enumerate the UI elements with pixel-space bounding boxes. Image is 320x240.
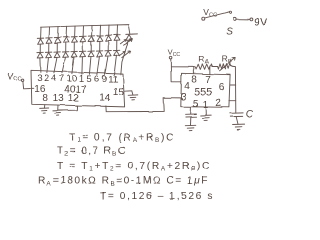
svg-text:5: 5: [86, 74, 91, 85]
IC U2 555 body: [181, 73, 230, 107]
LED D8b (row 2, col 8): [96, 51, 102, 57]
capacitor C (timing): [230, 113, 243, 117]
wire: column 4 to 4017 pin 7: [62, 58, 66, 74]
svg-text:8: 8: [191, 75, 197, 86]
resistor RA: [195, 64, 212, 70]
svg-text:15: 15: [113, 87, 125, 98]
svg-text:S: S: [226, 26, 233, 37]
wire: column 3 to 4017 pin 4: [54, 58, 57, 73]
LED D6b (row 2, col 6): [79, 51, 85, 57]
svg-text:T = T1+T2= 0,7(RA+2RB)C: T = T1+T2= 0,7(RA+2RB)C: [57, 161, 211, 173]
wire: column 11 to 4017 pin 11 corner: [121, 40, 129, 75]
svg-text:10: 10: [66, 74, 77, 85]
wire: column 5 link: [73, 43, 75, 52]
wire: column 1 to 4017 pin 3: [39, 58, 42, 72]
svg-text:A: A: [205, 59, 209, 65]
LED D10b (row 2, col 10): [113, 50, 119, 56]
svg-text:B: B: [228, 59, 232, 65]
wire: column 10 link: [116, 41, 118, 51]
wire: RA to RB junction (555 pin 7): [212, 66, 218, 68]
LED D4b (row 2, col 4): [62, 52, 68, 58]
wire: C to ground: [236, 117, 238, 125]
wire: column 2 bus drop: [48, 27, 50, 38]
wire: RB to right vertical rail: [231, 66, 236, 113]
capacitor (pin 5 bypass): [186, 114, 197, 117]
LED D3a (row 1, col 3): [54, 37, 60, 43]
LED D9b (row 2, col 9): [105, 51, 111, 57]
wire: diode anode bus: [41, 25, 130, 34]
wire: column 6 link: [82, 42, 84, 51]
LED D1a (row 1, col 1): [37, 38, 43, 44]
svg-text:11: 11: [108, 74, 118, 85]
svg-text:9: 9: [102, 74, 107, 85]
wire: 555 pin 2 to rail: [229, 100, 236, 102]
svg-text:CC: CC: [13, 76, 21, 82]
wire: column 6 to 4017 pin 1: [81, 57, 84, 74]
formula line 2: T2 = 0,7 RBC: [57, 146, 127, 158]
wire: 555 pin 7 to RA/RB junction: [209, 67, 211, 75]
formula line 1: T1 = 0,7 (RA+RB)C: [69, 132, 175, 144]
LED D10a (row 1, col 10): [114, 35, 120, 41]
switch S lever: [205, 12, 230, 18]
wire: column 8 bus drop: [99, 25, 101, 36]
resistor RB label: [222, 53, 232, 65]
LED D3b (row 2, col 3): [54, 52, 60, 58]
wire: pin 8 to ground: [43, 105, 45, 109]
svg-text:T= 0,126 – 1,526 s: T= 0,126 – 1,526 s: [100, 191, 214, 202]
formula line 5: T = 0,126 - 1,526 s: [100, 191, 214, 202]
Vcc terminal circle (555): [169, 56, 172, 59]
svg-text:14: 14: [99, 93, 111, 104]
wire: 555 pin 5 to bypass cap: [190, 107, 192, 114]
svg-text:3: 3: [37, 73, 42, 84]
wire: switch to 9V terminal: [236, 18, 250, 20]
4017 pin 16 tick: [31, 87, 34, 89]
LED D2a (row 1, col 2): [46, 38, 52, 44]
wire: column 6 bus drop: [82, 26, 84, 37]
svg-text:CC: CC: [173, 52, 181, 58]
LED D2b (row 2, col 2): [45, 52, 51, 58]
4017 top pin numbers 3 2 4 7 10 1 5 6 9 11: [37, 73, 118, 86]
svg-text:9V: 9V: [254, 16, 268, 28]
wire: column 5 bus drop: [74, 26, 76, 37]
svg-text:T2= 0,7 RBC: T2= 0,7 RBC: [57, 146, 127, 158]
svg-text:R: R: [222, 53, 228, 63]
wire: column 8 to 4017 pin 6: [97, 57, 100, 75]
svg-text:13: 13: [53, 93, 65, 104]
wire: 555 pin 1 to ground: [205, 108, 207, 116]
wire: bypass cap to ground: [190, 117, 192, 125]
Vcc label (4017 supply): [8, 71, 22, 82]
wire: 555 pin 3 output to 4017 pin 14 clock: [106, 98, 181, 112]
resistor RB (variable): [218, 64, 231, 70]
wire: Vcc rail to RA: [171, 66, 195, 68]
LED D5a (row 1, col 5): [71, 37, 77, 43]
wire: column 2 link: [48, 44, 50, 53]
wire: pin 12 to pin 13 ground rail: [58, 106, 77, 111]
LED D4a (row 1, col 4): [63, 37, 69, 43]
svg-text:3: 3: [181, 92, 187, 103]
wire: column 2 to 4017 pin 2: [47, 58, 49, 73]
svg-text:5: 5: [193, 99, 199, 110]
wire: column 8 link: [99, 41, 101, 51]
wire: column 4 bus drop: [65, 26, 67, 37]
formula line 3: T = T1+T2 = 0,7(RA+2RB)C: [57, 161, 211, 173]
svg-text:4: 4: [51, 73, 56, 84]
ground (555 pin 5): [185, 125, 196, 130]
svg-text:R: R: [198, 54, 204, 64]
wire: column 9 bus drop: [108, 25, 110, 35]
svg-text:4: 4: [184, 81, 190, 92]
Vcc label (switch): [203, 7, 217, 18]
svg-text:12: 12: [68, 93, 80, 104]
svg-text:6: 6: [94, 74, 99, 85]
resistor RB arrow (variable): [220, 58, 236, 71]
svg-text:7: 7: [59, 73, 64, 84]
wire: pin 13 to ground: [57, 105, 59, 111]
resistor RA label: [198, 54, 208, 66]
LED light arrows, row 2: [119, 51, 131, 58]
svg-text:2: 2: [216, 98, 222, 109]
LED D7b (row 2, col 7): [88, 51, 94, 57]
ground (capacitor C): [233, 124, 245, 129]
wire: 555 pin 6 to rail: [230, 84, 236, 86]
wire: column 7 to 4017 pin 5: [89, 57, 91, 74]
9V terminal circle: [250, 18, 253, 21]
wire: Vcc to 4017 pin 16: [23, 81, 31, 89]
LED D1b (row 2, col 1): [37, 52, 43, 58]
formula line 4: RA=180kOhm RB=0-1MOhm C=1uF: [38, 176, 209, 188]
LED D9a (row 1, col 9): [105, 35, 111, 41]
wire: column 1 link: [39, 44, 41, 53]
svg-text:555: 555: [194, 87, 212, 99]
LED D11 (row 1, col 11): [126, 34, 138, 40]
wire: column 7 link: [90, 42, 92, 52]
svg-text:7: 7: [205, 75, 211, 86]
svg-text:C: C: [245, 109, 253, 120]
wire: column 4 link: [65, 43, 67, 52]
wire: column 3 bus drop: [57, 27, 59, 38]
switch S lever tip circle: [229, 11, 231, 13]
wire: column 9 to 4017 pin 9: [105, 56, 108, 75]
Vcc terminal circle: [21, 79, 23, 81]
switch S right terminal: [233, 17, 236, 20]
svg-text:2: 2: [44, 73, 49, 84]
LED light arrows, row 1: [120, 39, 132, 46]
ground (4017 pin 8): [40, 108, 49, 113]
wire: 555 pin 8 to Vcc rail: [193, 67, 195, 74]
wire: column 1 bus drop: [40, 27, 42, 38]
svg-text:1: 1: [79, 74, 84, 85]
LED D7a (row 1, col 7): [88, 36, 94, 42]
LED D6a (row 1, col 6): [80, 36, 86, 42]
ground (555 pin 1): [201, 115, 212, 120]
wire: column 10 to 4017 pin 11: [114, 56, 117, 75]
IC U1 4017 body: [31, 70, 125, 107]
wire: column 9 link: [107, 41, 109, 51]
svg-text:RA=180kΩ RB=0-1MΩ C= 1μF: RA=180kΩ RB=0-1MΩ C= 1μF: [38, 176, 209, 188]
switch S left terminal: [202, 17, 205, 20]
wire: column 7 bus drop: [91, 26, 93, 37]
svg-text:8: 8: [42, 93, 48, 104]
LED D5b (row 2, col 5): [71, 51, 77, 57]
ground (4017 pin 15): [128, 95, 138, 100]
svg-text:6: 6: [219, 82, 225, 93]
wire: column 10 bus drop: [116, 25, 118, 35]
wire: Vcc down to 555 pin 4: [171, 59, 182, 82]
wire: pin 15 stub: [125, 91, 133, 95]
ground (4017 pin 13): [53, 111, 63, 116]
LED D8a (row 1, col 8): [97, 35, 103, 41]
Vcc label (555 supply): [168, 48, 181, 58]
svg-text:T1= 0,7 (RA+RB)C: T1= 0,7 (RA+RB)C: [69, 132, 175, 144]
wire: column 3 link: [56, 43, 58, 52]
wire: column 5 to 4017 pin 10: [72, 57, 74, 73]
